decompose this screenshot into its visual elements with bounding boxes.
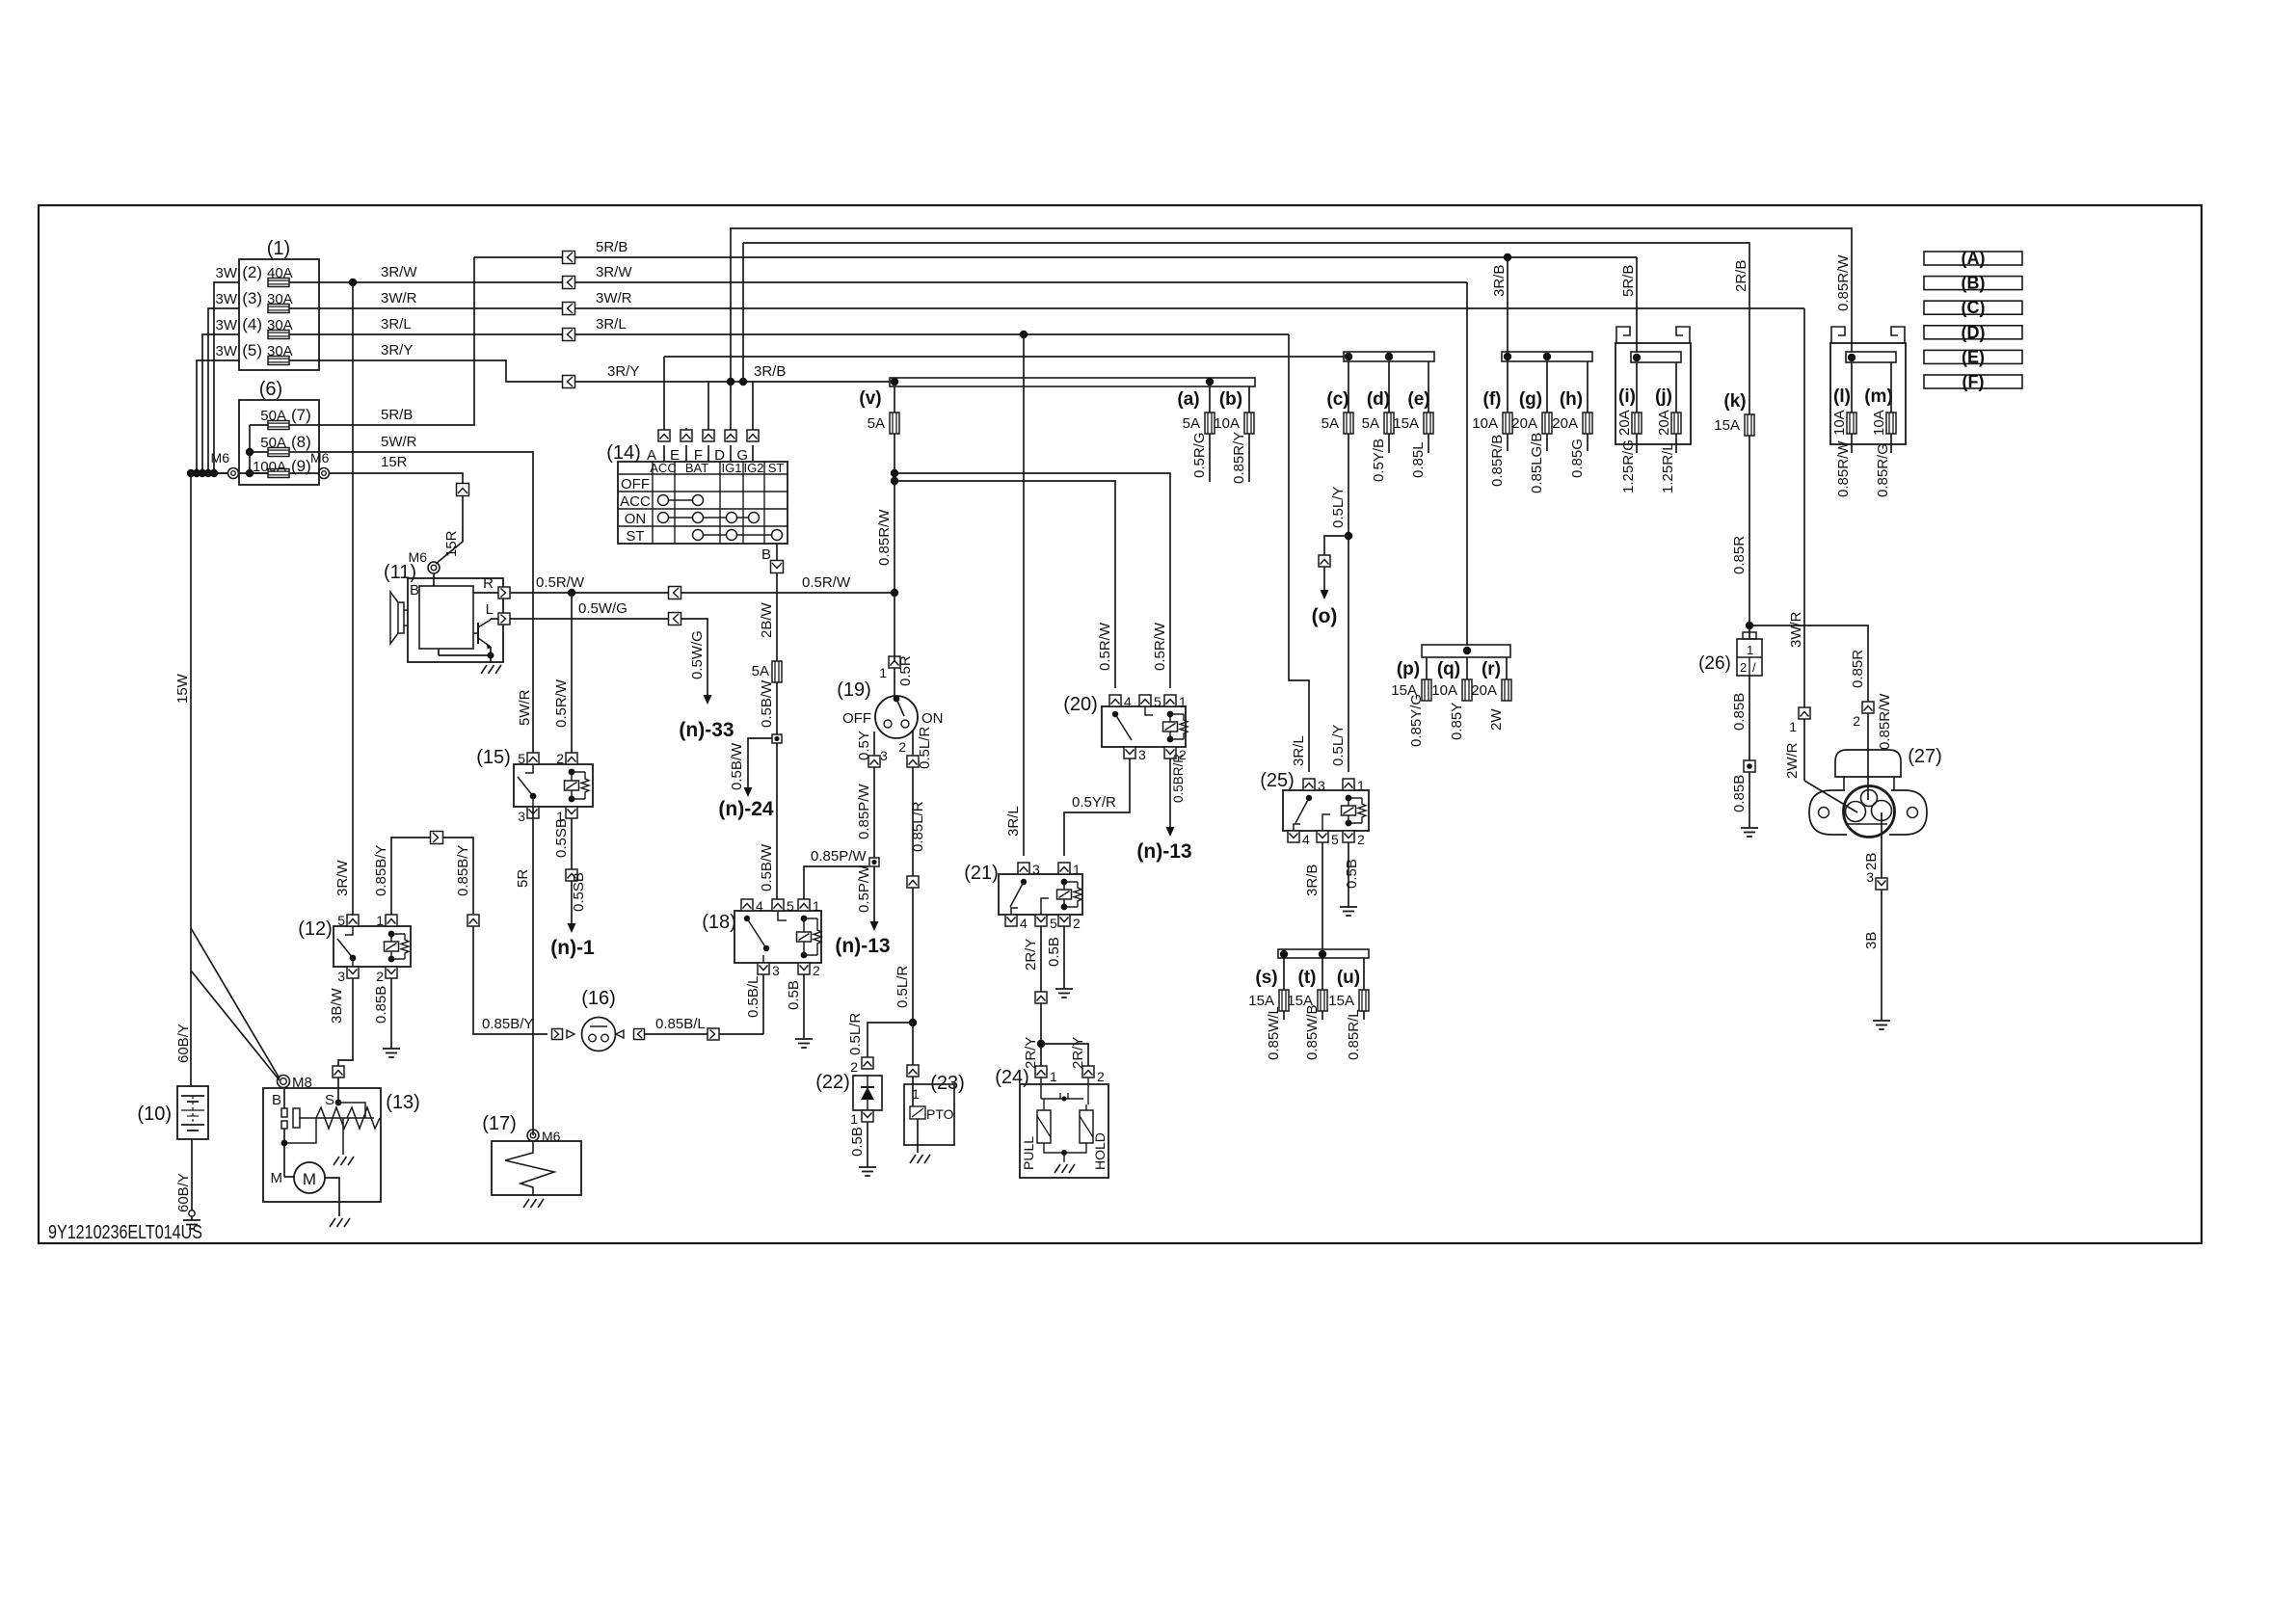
starter pin S [325,1092,334,1108]
box (l)(m) hook right [1891,327,1905,343]
svg-text:0.85P/W: 0.85P/W [811,848,867,865]
svg-text:(s): (s) [1255,968,1277,988]
starter (13) outline [263,1088,381,1202]
label 3W/R riser [1788,611,1804,648]
svg-text:2B: 2B [1863,853,1880,870]
label 0.5BR/R [1171,754,1186,803]
svg-text:3: 3 [880,748,888,763]
relay (21) pin5 hook [1041,898,1049,915]
ground starter motor 777 [330,1218,350,1227]
wire 0.5R/W riser to (15) [571,593,573,753]
label 0.5B/W upper [759,679,775,728]
svg-text:0.5B: 0.5B [849,1127,866,1157]
start switch (19) body [875,696,918,738]
svg-text:2W/R: 2W/R [1784,742,1801,779]
label 0.85R (k) [1731,536,1748,574]
component (27) inner top [1861,790,1878,807]
label 0.5R/W br b [1097,622,1113,671]
label 0.5B (25) [1344,859,1360,889]
label 3W/R left [381,290,417,306]
junction dot (c) [1345,353,1352,360]
svg-text:0.85R: 0.85R [1731,536,1748,574]
svg-text:(n)-1: (n)-1 [550,937,595,959]
connector 3R/Y [563,376,575,388]
fuse (e) label [1407,389,1429,410]
svg-text:0.85R/L: 0.85R/L [1346,1009,1362,1060]
label 0.85P/W [811,848,867,865]
fuse (g) 20A [1511,412,1552,434]
wire (v) fuse feed [894,386,895,412]
fuse (u) 15A [1328,990,1369,1020]
wire S into starter [337,1078,339,1103]
svg-text:0.85L: 0.85L [1410,441,1427,478]
pin label B dynamo [410,582,419,599]
label 0.85R/B [1489,435,1506,487]
svg-text:(i): (i) [1618,386,1636,407]
connector 3R/W [563,277,575,289]
relay (25) pin5 hook [1322,814,1330,831]
pin label B [761,546,771,563]
svg-text:50A: 50A [260,435,286,451]
relay (20) pin 3 [1124,747,1146,762]
svg-text:(8): (8) [291,433,311,451]
wire 0.85R/B stub [1507,434,1508,451]
relay (25) pin 1 [1343,778,1365,793]
label (n)-13 a [835,935,890,957]
connector (19) pin3 [868,756,880,767]
ground (27) [1873,1015,1890,1029]
junction dot 5R/B to 3R/B branch [1504,253,1511,261]
svg-text:(7): (7) [291,406,311,424]
svg-text:15A: 15A [1328,993,1354,1009]
wire 0.5R/G stub [1209,434,1211,482]
label 2R/Y pin2 [1070,1037,1086,1069]
svg-text:3B: 3B [1863,932,1880,949]
pin label 1 (22) [850,1111,858,1127]
fuse (d) label [1367,389,1390,410]
svg-text:3: 3 [337,969,345,984]
wire battery bus to M6 [191,472,227,474]
wire 0.85B from (12) [390,978,392,1043]
svg-text:PTO: PTO [926,1106,954,1122]
svg-text:0.5P/W: 0.5P/W [856,865,872,913]
relay (20) coil [1163,711,1188,743]
ground battery [183,1211,200,1229]
svg-text:5: 5 [1050,916,1057,931]
label 15W [174,673,191,704]
svg-text:0.5R/W: 0.5R/W [553,678,570,728]
svg-text:OFF: OFF [842,710,871,727]
key switch connector G [747,430,759,441]
fuse (4) 30A [268,331,289,339]
svg-text:2: 2 [376,969,384,984]
wire 5R/B riser to (i)(j) [1636,257,1638,352]
label 0.85W/B [1304,1004,1321,1060]
fuse (k) label [1723,391,1746,412]
box (i)(j) outline [1615,343,1691,444]
wire 2R/Y branch [1041,1044,1088,1066]
key switch connector A [658,430,670,441]
svg-text:10A: 10A [1431,682,1457,699]
svg-text:5R/B: 5R/B [1620,265,1637,297]
wire 3R/W riser to (12) [352,282,354,916]
wire into (23) [912,1077,914,1084]
relay (12) pin 3 [337,967,359,984]
svg-text:2: 2 [1740,660,1747,675]
fuse (p) label [1397,659,1420,679]
wire cable to starter M8 (lower) [191,971,280,1080]
svg-text:B: B [761,546,771,563]
wire fuse7-8-9 common [250,425,268,473]
pin letter F [694,447,703,464]
label M6 dynamo [409,549,428,565]
label 60B/Y upper [175,1024,192,1063]
label 3B/W [329,987,345,1024]
fuse (l) label [1833,386,1851,407]
fuse box (6) label [259,379,282,400]
row label OFF [621,476,650,492]
svg-text:(10): (10) [137,1104,172,1125]
label 3B [1863,932,1880,949]
wire coils [1044,1078,1088,1110]
svg-text:(v): (v) [859,388,881,409]
svg-text:2R/B: 2R/B [1733,260,1749,292]
wire 0.5B from (18) [803,974,805,1033]
svg-text:(5): (5) [242,341,262,359]
diode (22) label [815,1072,850,1093]
label 3R/L riser (21) [1005,806,1022,837]
starter contact plate [293,1108,300,1128]
svg-text:0.85B: 0.85B [1731,775,1748,812]
wire 2W/R into (27) [1804,719,1857,812]
label 5W/R [381,434,417,450]
fuse (9) label [253,457,311,475]
svg-text:2: 2 [898,739,906,755]
connector 0.85B/Y 2 [467,915,479,926]
label 0.85B/Y left [373,845,389,896]
start switch (19) label [837,679,871,701]
wire 3R/L to (25) [1289,334,1309,772]
svg-text:3B/W: 3B/W [329,987,345,1024]
label 0.85L [1410,441,1427,478]
wire 0.5R/W branch a [894,473,1170,688]
relay (15) switch [518,764,536,807]
svg-text:0.85Y/G: 0.85Y/G [1408,694,1425,747]
ground (22) [859,1161,876,1176]
svg-text:0.5B: 0.5B [1046,937,1062,967]
svg-text:15R: 15R [381,454,408,470]
label 0.5R/G [1191,432,1208,478]
battery (10) case [177,1086,208,1139]
svg-text:5A: 5A [868,415,885,432]
svg-text:20A: 20A [1656,410,1672,436]
relay (12) box [334,926,411,967]
label 0.85Y/G [1408,694,1425,747]
svg-text:(l): (l) [1833,386,1851,407]
header IG2 [744,461,764,475]
label ON [921,710,944,727]
wire (c) fuse feed [1348,361,1349,412]
relay (12) label [298,918,333,940]
fuse (v) 5A [868,412,899,434]
svg-text:15A: 15A [1393,415,1419,432]
fuse (i) label [1618,386,1636,407]
wire (s) fuse feed [1283,958,1285,990]
fuse (e) 15A [1393,412,1433,434]
junction dot (l) [1848,354,1855,361]
svg-text:PULL: PULL [1021,1136,1036,1170]
wire 3W/R riser [1803,308,1805,707]
relay (21) box [999,874,1082,915]
fuse (c) label [1326,389,1348,410]
connector 0.85B/L [707,1028,719,1040]
key switch connector F [703,430,714,441]
svg-text:4: 4 [1020,916,1028,931]
wire 3R/Y from fuse (5) [289,360,563,382]
connector 0.85B/Y [431,832,443,844]
relay (20) pin 5 [1139,694,1161,709]
connector 0.5W/G [669,613,681,625]
wire (a) fuse feed [1209,386,1211,412]
svg-text:3R/W: 3R/W [381,264,417,280]
svg-text:1: 1 [879,665,887,680]
connector 0.5R/W [669,587,681,599]
ring M6 right of (9) [319,468,330,479]
relay (15) label [476,747,511,768]
pin label 1 (19) [879,665,887,680]
relay (21) pin 2 [1058,915,1081,931]
wire 0.5B (22) [867,1122,868,1161]
horn connector (26) [1737,632,1762,676]
wire M6 into dynamo [433,573,435,586]
connector S starter [333,1066,344,1078]
dynamo transistor [473,620,492,650]
bus bar (i)(j) [1631,352,1681,362]
svg-text:0.85B/Y: 0.85B/Y [373,845,389,896]
wire 3W from fuse (4) [202,334,239,473]
arrow to (n)-13 b [1166,771,1175,837]
label 0.85B/Y riser [455,845,471,896]
key switch wire G feed [752,382,754,430]
svg-text:0.85Y: 0.85Y [1449,703,1465,740]
svg-text:(m): (m) [1864,386,1893,407]
diode (22) symbol [861,1076,874,1110]
junction dot (26) [1746,622,1753,629]
svg-text:0.5L/Y: 0.5L/Y [1330,725,1347,766]
label 0.85R/W riser [1835,254,1852,311]
wire bus to M6 left [191,470,227,473]
wire 3W from fuse (5) [197,360,239,473]
relay (25) pin 2 [1343,831,1365,847]
connector B [771,561,784,573]
relay (20) box [1102,706,1186,747]
svg-text:3R/W: 3R/W [596,264,632,280]
diode (22) box [853,1076,882,1110]
svg-text:0.85R/W: 0.85R/W [876,509,893,566]
svg-text:3: 3 [1318,778,1325,793]
wire 0.85R/G stub [1890,434,1892,453]
solenoid pull coil [1037,1110,1051,1143]
fuse (b) 10A [1214,412,1254,434]
wire (e) fuse feed [1428,361,1429,412]
relay (18) switch [744,916,769,963]
svg-text:M: M [303,1170,316,1188]
svg-text:1: 1 [813,898,820,914]
ground (12) [383,1043,400,1057]
junction dot G [739,378,747,386]
svg-text:3W: 3W [216,265,238,281]
wire 3R/L to A [664,356,1344,358]
label 0.5B (18) [786,980,802,1010]
svg-text:IG1: IG1 [722,461,742,475]
svg-text:3R/L: 3R/L [381,316,412,333]
svg-text:(25): (25) [1260,770,1295,791]
svg-text:(p): (p) [1397,659,1420,679]
label 2B/W [759,601,775,638]
box (i)(j) hook right [1676,327,1690,343]
junction dot (i) [1633,354,1641,361]
wire 0.85P/W from (18) [804,866,868,899]
wire 0.85G stub [1587,434,1589,451]
row label ST [626,528,644,545]
svg-text:M: M [271,1170,283,1186]
component (27) neck [1844,777,1894,790]
svg-text:1.25R/G: 1.25R/G [1620,439,1637,493]
wire branch to (27) pin2 [1749,625,1868,702]
wire (19) pin3 down [873,732,875,756]
label 0.85B (26) upper [1731,693,1748,731]
svg-text:(18): (18) [702,912,736,933]
svg-text:3W/R: 3W/R [1788,611,1804,648]
wire 3W from fuse (2) [214,282,239,473]
relay (15) pin 2 [556,751,577,766]
svg-text:(e): (e) [1407,389,1429,410]
bus bar (c)(d)(e) [1344,352,1434,361]
label HOLD [1092,1132,1108,1170]
label 2R/B riser [1733,260,1749,292]
fuse (k) 15A [1714,414,1754,436]
pin label 1 (27) [1789,719,1797,734]
key switch wire A feed [663,357,665,430]
fuse (d) 5A [1362,412,1394,434]
label 1.25R/G [1620,439,1637,493]
svg-text:BAT: BAT [685,461,708,475]
wire 15R to alternator [436,496,463,564]
svg-text:3R/L: 3R/L [1005,806,1022,837]
fuse (c) 5A [1322,412,1353,434]
label 3R/Y mid [607,363,639,380]
pin letter E [670,447,680,464]
pin label L [486,601,494,618]
wire 2R/Y to (24) [1040,1003,1042,1066]
svg-text:B: B [410,582,419,599]
label 0.85R/W (27) [1877,693,1893,750]
wire 0.85B (26) [1749,676,1750,760]
pto switch (23) label [930,1073,965,1094]
wire 0.85B/L [645,1033,763,1035]
key switch table rows [618,474,788,526]
bus bar (p)(q)(r) [1422,645,1510,657]
connector plate (A) [1924,249,2022,268]
label 1.25R/L [1660,442,1676,493]
wire into (19) [894,668,895,696]
svg-text:ST: ST [768,461,785,475]
svg-text:(B): (B) [1962,274,1986,293]
arrow to (n)-24 [744,783,753,797]
label 0.5L/R (19) [917,727,933,769]
wire (d) fuse feed [1388,361,1390,412]
fuse (2) 40A [268,279,289,287]
wire 0.85R/W stub [1851,434,1853,453]
fuse (g) label [1519,389,1542,410]
label PULL [1021,1136,1036,1170]
relay (20) pin5 hook [1145,706,1153,715]
component (27) chord [1847,823,1887,825]
svg-text:5R: 5R [515,869,531,888]
wire 0.5R/W branch b [894,481,1115,688]
wire 3R/W riser to (p)(q)(r) [1466,282,1468,645]
connector 2R/Y [1035,992,1047,1003]
fuse 5A key switch [772,661,782,682]
fuse (4) label [242,315,292,333]
starter motor M circle [294,1162,325,1193]
svg-text:1: 1 [850,1111,858,1127]
relay (18) label [702,912,736,933]
label 2R/Y [1023,939,1039,971]
svg-text:60B/Y: 60B/Y [175,1024,192,1063]
svg-text:(6): (6) [259,379,282,400]
wire 3R/L riser to (21) [1023,334,1025,856]
svg-text:0.5L/Y: 0.5L/Y [1330,487,1347,528]
fuse (b) label [1219,389,1242,410]
svg-text:(b): (b) [1219,389,1242,410]
svg-text:2: 2 [1097,1069,1105,1084]
svg-text:0.85P/W: 0.85P/W [856,784,872,839]
wire 0.5B/L from (18) [762,974,764,1034]
key switch pin stubs [664,445,753,462]
fuse (h) 20A [1552,412,1592,434]
wire (u) fuse feed [1363,958,1365,990]
connector 0.5SB [566,869,577,881]
connector 3R/L [563,329,575,341]
component (27) body [1844,786,1895,838]
starter (13) label [386,1092,420,1113]
label 3R/L right [596,316,627,333]
label 3W (3) [216,291,238,307]
label 3W/R right [596,290,632,306]
svg-text:(12): (12) [298,918,333,940]
junction dot (a) [1206,378,1214,386]
svg-text:0.5Y/B: 0.5Y/B [1371,439,1387,482]
svg-text:0.5R/W: 0.5R/W [1097,622,1113,671]
svg-text:3R/B: 3R/B [1491,265,1508,297]
wire 0.85L/R lower [912,888,914,1065]
wire (f) fuse feed [1507,361,1508,412]
dynamo (11) outline [408,578,503,662]
ground (24) 777 [1055,1164,1075,1173]
relay (18) pin 4 [741,898,763,914]
label 0.5B/W mid [729,742,745,790]
wire key switch B terminal [776,544,778,561]
header ACC [650,461,676,475]
label (n)-13 b [1136,840,1191,863]
junction dot starter B [281,1140,288,1147]
svg-text:/: / [1752,660,1756,675]
svg-text:60B/Y: 60B/Y [175,1173,192,1212]
svg-text:9Y1210236ELT014US: 9Y1210236ELT014US [48,1222,202,1243]
triangle pump left [567,1030,574,1038]
svg-text:3R/L: 3R/L [1291,735,1307,766]
